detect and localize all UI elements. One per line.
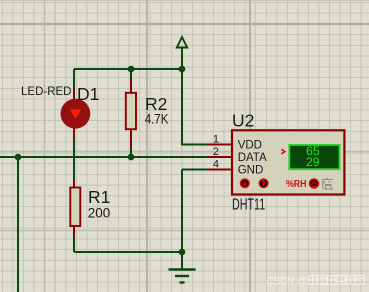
svg-text:VDD: VDD [238, 139, 262, 151]
svg-text:%RH: %RH [286, 179, 306, 190]
svg-text:2: 2 [213, 146, 219, 158]
svg-text:LED-RED: LED-RED [21, 86, 71, 98]
svg-text:200: 200 [88, 206, 111, 221]
svg-text:D1: D1 [77, 84, 99, 104]
svg-text:U2: U2 [232, 111, 254, 131]
svg-text:DATA: DATA [238, 152, 267, 164]
svg-text:29: 29 [306, 155, 320, 169]
svg-text:4: 4 [213, 158, 219, 170]
svg-text:GND: GND [238, 165, 264, 177]
svg-text:4.7K: 4.7K [145, 111, 169, 127]
svg-text:CSDN @: CSDN @ [267, 276, 307, 288]
svg-text:1: 1 [213, 134, 219, 146]
svg-text:R1: R1 [88, 187, 110, 207]
svg-text:DHT11: DHT11 [232, 197, 265, 214]
